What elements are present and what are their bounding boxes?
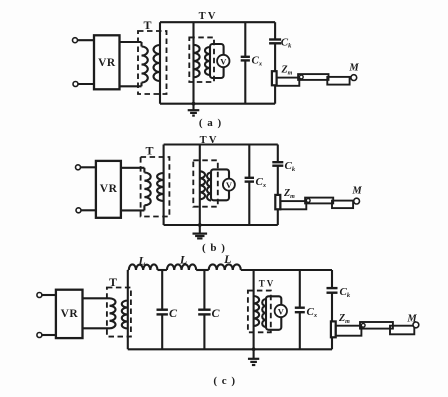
- wire bottom rail (a): [160, 103, 275, 105]
- transformer T primary winding (c): [110, 298, 116, 328]
- instrument link bar 2 (b): [305, 198, 333, 204]
- wire VR-to-T top (c): [83, 297, 110, 299]
- svg-text:V: V: [278, 306, 285, 316]
- wire shunt C branch 2 (c): [203, 270, 205, 310]
- voltage regulator VR (b): [96, 161, 121, 218]
- measuring instrument M terminal (a): [351, 75, 357, 81]
- capacitor C1 plates (c): [157, 309, 168, 311]
- wire terminal-to-VR bottom (a): [78, 83, 94, 85]
- svg-text:VR: VR: [100, 183, 118, 195]
- voltage regulator VR (a): [94, 35, 120, 89]
- wire Zm-to-bottom-rail (a): [274, 85, 276, 103]
- measuring impedance Z_m (c): [331, 321, 336, 337]
- capacitor C_x plates (b): [245, 177, 254, 179]
- voltmeter loop wire (a): [210, 44, 224, 78]
- voltage transformer TV dashed box (b): [193, 160, 218, 206]
- wire C_k-to-Zm (a): [274, 43, 276, 71]
- instrument link bar 1 (c): [336, 326, 362, 336]
- instrument link bar 3 (a): [327, 77, 349, 85]
- wire terminal-to-VR bottom (c): [42, 334, 56, 336]
- wire terminal-to-VR top (c): [42, 294, 56, 296]
- voltage regulator VR (c): [56, 290, 83, 338]
- svg-text:( c ): ( c ): [213, 375, 236, 387]
- transformer TV primary winding (c): [254, 296, 260, 326]
- wire TV primary feed (a): [192, 22, 194, 104]
- transformer TV primary winding (b): [200, 171, 205, 199]
- wire C_k-to-Zm (b): [277, 166, 279, 195]
- voltage transformer TV dashed box (c): [248, 291, 271, 333]
- wire top rail segment 2 (c): [158, 269, 167, 271]
- wire VR-to-T top (a): [120, 41, 142, 43]
- wire top rail segment 4 (c): [241, 269, 332, 271]
- capacitor C_x plates (c): [295, 307, 305, 309]
- circuit (c) input terminal bottom: [37, 333, 42, 338]
- transformer T secondary winding (a): [154, 45, 161, 81]
- svg-text:T: T: [109, 275, 117, 289]
- transformer T shield dashed box (c): [107, 288, 131, 337]
- wire top rail segment 3 (c): [196, 269, 209, 271]
- voltmeter V (a): [217, 55, 229, 67]
- circuit (a) input terminal top: [73, 38, 78, 43]
- circuit (c) input terminal top: [37, 293, 42, 298]
- wire TV primary feed (b): [199, 145, 201, 226]
- junction dot ground (b): [198, 223, 202, 227]
- capacitor C_k plates (b): [272, 161, 283, 163]
- transformer T shield dashed box (a): [138, 31, 167, 94]
- ground (a): [192, 104, 194, 111]
- measuring impedance Z_m (a): [272, 71, 277, 85]
- circuit (b) input terminal bottom: [76, 208, 81, 213]
- junction dot ground (a): [192, 102, 196, 106]
- svg-text:C: C: [169, 306, 178, 320]
- transformer TV secondary winding (a): [205, 47, 210, 75]
- wire Zm-to-bottom-rail (c): [331, 337, 333, 349]
- voltage transformer TV dashed box (a): [189, 37, 214, 82]
- wire top rail segment 1 (c): [128, 269, 129, 271]
- circuit (b) input terminal top: [76, 165, 81, 170]
- capacitor C2 plates (c): [198, 309, 210, 311]
- measuring impedance Z_m (b): [275, 195, 280, 209]
- transformer T secondary winding (c): [122, 301, 128, 329]
- instrument link bar 1 (a): [277, 78, 300, 86]
- svg-text:V: V: [220, 56, 227, 66]
- voltmeter V (b): [223, 179, 235, 191]
- wire TV left edge / secondary lead (a): [159, 22, 161, 104]
- svg-text:T: T: [145, 144, 153, 158]
- wire filter left edge / secondary lead (c): [127, 270, 129, 349]
- inductor L1 (c): [129, 264, 158, 270]
- transformer T secondary winding (b): [157, 173, 163, 201]
- instrument link bar 2 (a): [298, 74, 328, 80]
- capacitor C_k plates (c): [327, 287, 338, 289]
- inductor L2 (c): [167, 264, 196, 270]
- svg-text:VR: VR: [61, 308, 79, 320]
- wire top rail (b): [164, 143, 278, 145]
- capacitor C_k plates (a): [269, 38, 281, 40]
- svg-text:L: L: [179, 253, 187, 267]
- instrument link bar 2 (c): [360, 322, 393, 329]
- wire C_x branch (b): [248, 145, 250, 178]
- wire TV left edge / secondary lead (b): [163, 145, 165, 226]
- voltmeter loop wire (c): [266, 296, 281, 330]
- svg-text:VR: VR: [98, 57, 116, 69]
- wire bar3-to-M (b): [353, 200, 354, 202]
- svg-text:C: C: [211, 306, 220, 320]
- junction dot ground (c): [252, 347, 256, 351]
- svg-text:L: L: [137, 254, 145, 268]
- svg-text:( a ): ( a ): [199, 117, 222, 129]
- wire VR-to-T top (b): [121, 167, 144, 169]
- wire C_k branch upper (a): [274, 22, 276, 39]
- inductor L3 (c): [209, 264, 241, 270]
- svg-text:T V: T V: [259, 279, 274, 289]
- wire C_k-to-Zm (c): [331, 293, 333, 322]
- voltmeter V (c): [275, 305, 287, 317]
- svg-text:V: V: [226, 180, 233, 190]
- voltmeter loop wire (b): [211, 169, 229, 200]
- measuring instrument M terminal (c): [413, 322, 419, 328]
- wire bar3-to-M (c): [413, 326, 416, 327]
- capacitor C_x plates (a): [241, 56, 250, 58]
- wire C_k branch upper (c): [331, 270, 333, 288]
- svg-text:( b ): ( b ): [202, 242, 226, 254]
- wire shunt C branch 1 (c): [161, 270, 163, 310]
- svg-text:L: L: [223, 252, 231, 266]
- wire bottom rail (b): [164, 224, 278, 226]
- wire terminal-to-VR top (a): [77, 39, 94, 41]
- transformer TV secondary winding (b): [207, 173, 211, 201]
- wire VR-to-T bottom (a): [120, 85, 142, 87]
- transformer T shield dashed box (b): [141, 157, 170, 217]
- ground (c): [253, 349, 255, 359]
- measuring instrument M terminal (b): [354, 198, 360, 204]
- circuit (a) input terminal bottom: [73, 82, 78, 87]
- transformer T primary winding (a): [140, 42, 142, 47]
- instrument link bar 1 (b): [281, 201, 307, 209]
- svg-text:T: T: [143, 18, 151, 32]
- wire VR-to-T bottom (b): [121, 209, 144, 211]
- wire C_x branch (c): [299, 270, 301, 308]
- transformer TV primary winding (a): [194, 45, 200, 78]
- transformer T primary winding (b): [143, 168, 145, 173]
- transformer TV secondary winding (c): [262, 299, 266, 327]
- svg-text:M: M: [348, 63, 359, 74]
- wire top rail (a): [160, 21, 275, 23]
- wire C_x branch (a): [244, 22, 246, 57]
- wire Zm-to-bottom-rail (b): [277, 209, 279, 225]
- svg-text:T V: T V: [199, 11, 216, 22]
- svg-text:M: M: [406, 314, 417, 325]
- svg-text:M: M: [351, 186, 362, 197]
- wire bar3-to-M (a): [350, 77, 352, 79]
- wire terminal-to-VR top (b): [80, 166, 96, 168]
- instrument link bar 3 (b): [332, 201, 353, 209]
- svg-text:T V: T V: [200, 135, 217, 146]
- ground (b): [199, 225, 201, 234]
- wire bottom rail (c): [128, 348, 332, 350]
- wire TV primary feed (c): [253, 270, 255, 349]
- wire C_k branch upper (b): [277, 145, 279, 163]
- wire terminal-to-VR bottom (b): [81, 209, 96, 211]
- instrument link bar 3 (c): [390, 326, 414, 335]
- wire VR-to-T bottom (c): [83, 327, 110, 329]
